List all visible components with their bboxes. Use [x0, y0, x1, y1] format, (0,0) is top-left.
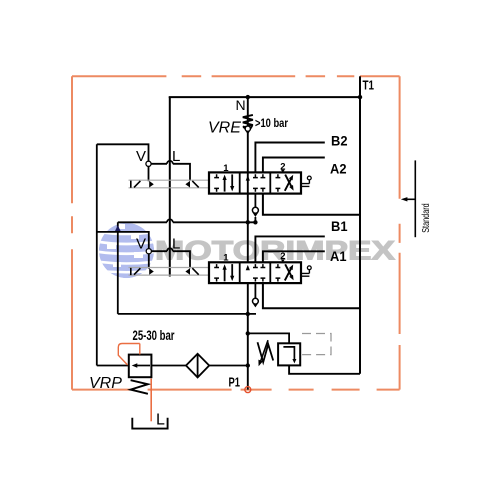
node drain end	[253, 220, 257, 224]
svg-text:N: N	[236, 97, 246, 113]
valve 2 cell a down arrow	[231, 264, 233, 277]
pilot triangle right valve 1	[149, 181, 154, 188]
boundary frame (red dashed subplate border)	[72, 76, 400, 389]
svg-text:1: 1	[223, 163, 229, 174]
wire: V circle down valve 2	[148, 254, 150, 269]
pilot triangle left valve 2	[185, 268, 190, 275]
wire: supply column P	[247, 97, 249, 390]
directional valve 1 body	[209, 172, 301, 193]
wire: left pilot rail	[96, 144, 98, 365]
valve 1 cell c symbols	[276, 174, 281, 192]
flow arrow on pilot box edge	[114, 225, 121, 232]
svg-text:25-30 bar: 25-30 bar	[133, 328, 176, 343]
svg-text:T1: T1	[363, 79, 375, 93]
valve 2 cell b symbols	[253, 264, 265, 281]
svg-text:P1: P1	[229, 376, 241, 390]
relief valve VM spring	[258, 342, 274, 362]
port V circle valve 2	[146, 249, 151, 254]
drain to tank (orange)	[150, 379, 152, 422]
main valve block outline	[169, 76, 360, 374]
relief valve VM adjust arrow	[260, 340, 268, 362]
wire: port A2	[263, 158, 325, 173]
svg-text:L: L	[156, 412, 165, 429]
pilot lever valve 2	[131, 268, 141, 275]
wire: V circle to right pilot (with hop) valve 2	[152, 248, 191, 268]
wire: port B2	[255, 143, 324, 173]
wire: VRP feed	[97, 365, 129, 367]
valve VRE seat	[243, 126, 252, 133]
valve 1 cell b flow arrowhead	[246, 175, 250, 180]
pilot actuator envelope valve 1 (gray)	[129, 180, 210, 188]
valve 1 cell a down arrow	[231, 174, 233, 187]
pilot box valve 2 bottom edge	[118, 313, 256, 315]
directional valve 2 body	[209, 262, 301, 283]
node VRP line x P	[246, 363, 250, 367]
marker under label 2 valve 2	[281, 259, 285, 262]
filter diamond	[151, 365, 247, 367]
port P1 marker	[245, 387, 251, 393]
valve VRP spring	[131, 380, 148, 394]
valve 2 cell c crossed arrows	[285, 267, 292, 280]
relief valve VM branch wire	[248, 333, 289, 343]
port T1 stub	[359, 76, 361, 97]
valve 1 cell c crossed arrows	[285, 178, 292, 191]
pilot triangle right valve 2	[149, 268, 154, 275]
svg-text:B2: B2	[331, 133, 348, 149]
wire: V pilot feed valve 2	[97, 232, 149, 249]
relief valve VM outlet	[289, 365, 360, 373]
svg-text:VRP: VRP	[89, 375, 122, 392]
wire: port A1	[263, 251, 325, 262]
valve 2 cell a up arrow	[224, 269, 226, 282]
valve 1 cell a symbols	[214, 174, 219, 192]
svg-text:VRE: VRE	[208, 120, 241, 137]
wire: V circle to right pilot (with hop) valve 1	[151, 161, 190, 181]
node at N	[246, 95, 250, 99]
valve 2 cell b flow arrowhead	[246, 265, 250, 270]
svg-text:A1: A1	[330, 248, 347, 264]
node at T1	[358, 95, 362, 99]
valve 2 detent	[301, 270, 309, 277]
relief valve VM body	[278, 343, 300, 365]
relief valve VM pilot line (gray dashed)	[300, 334, 331, 355]
block right edge	[359, 97, 361, 374]
svg-text:1: 1	[223, 253, 229, 264]
pilot actuator envelope valve 2 (gray)	[129, 268, 210, 276]
dimension arrow	[407, 198, 415, 200]
pilot spring stroke valve 1	[192, 181, 198, 188]
valve 1 detent	[301, 180, 309, 187]
valve 1 cell b symbols	[253, 174, 265, 192]
test port under valve 1	[254, 194, 256, 208]
pilot box valve 2 left edge	[117, 222, 119, 314]
marker under label 2 valve 1	[281, 170, 285, 173]
valve 2 cell c symbols	[276, 264, 281, 281]
node relief branch	[246, 331, 250, 335]
wire: drain line valve 1 (with hop)	[118, 219, 256, 222]
svg-text:Standard: Standard	[421, 203, 432, 233]
node bottom drain x P	[246, 312, 250, 316]
pilot spring stroke valve 2	[192, 268, 198, 275]
valve 2 cell a symbols	[214, 264, 219, 281]
tank symbol	[132, 418, 167, 429]
node drain x P	[246, 220, 250, 224]
svg-text:B1: B1	[331, 218, 348, 234]
section divider 2 (valve2 A-port drain)	[263, 283, 360, 308]
watermark globe logo	[96, 223, 157, 280]
pilot lever valve 1	[131, 181, 141, 188]
valve VRP arrow	[137, 365, 150, 367]
dimension line Standard	[414, 160, 416, 237]
block left edge	[169, 97, 171, 276]
port V circle valve 1	[146, 161, 151, 166]
leader 25-30 bar (orange)	[118, 344, 140, 366]
test port under valve 2	[254, 283, 256, 298]
svg-text:V: V	[136, 148, 146, 165]
valve VRE spring	[243, 115, 253, 128]
svg-text:A2: A2	[330, 161, 347, 177]
wire: V circle down to left pilot valve 1	[148, 166, 150, 181]
valve VRP body	[129, 355, 152, 378]
relief valve VM flow path	[283, 347, 294, 360]
section divider 1 (valve1 A-port drain)	[263, 194, 360, 215]
svg-text:V: V	[136, 236, 146, 253]
pilot triangle left valve 1	[185, 181, 190, 188]
valve 1 cell a up arrow	[224, 179, 226, 192]
wire: port B1	[255, 236, 324, 262]
block top edge	[169, 96, 360, 98]
svg-text:>10 bar: >10 bar	[255, 116, 288, 130]
wire: V pilot line valve 1	[97, 144, 149, 161]
